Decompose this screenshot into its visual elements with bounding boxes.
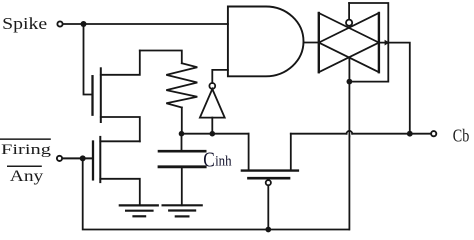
node inverter junction	[210, 131, 216, 137]
wire tgate output	[379, 43, 410, 134]
wire M3 gate to rail	[267, 185, 269, 229]
wire tgate control down to rail	[348, 136, 350, 229]
wire M2 drain stub	[100, 140, 140, 142]
transistor M3 gate bubble	[266, 180, 271, 185]
capacitor Cinh top plate	[159, 150, 205, 153]
node Firing junction	[80, 155, 86, 161]
wire tgate control loop	[349, 3, 388, 82]
node Spike junction	[81, 21, 87, 27]
node Firing terminal	[57, 156, 62, 161]
wire resistor bottom	[181, 108, 183, 134]
tgate TG1 top bubble	[346, 20, 352, 26]
transistor M3 right terminal	[290, 134, 292, 171]
resistor R1 zigzag	[166, 63, 197, 107]
wire AND output	[304, 42, 319, 44]
transistor M2 gate bar	[92, 142, 94, 180]
label Firing overline	[0, 138, 51, 140]
svg-text:Any: Any	[10, 168, 44, 185]
inverter U1 triangle	[200, 89, 225, 118]
wire M2 source stub	[100, 179, 140, 206]
tgate TG1 right base	[378, 13, 380, 72]
tgate TG1 edge E4	[319, 43, 379, 73]
transistor M1 channel bar	[100, 68, 102, 122]
ground G1	[120, 205, 158, 216]
wire cap bottom lead	[181, 168, 183, 206]
wire bus segment A	[182, 133, 249, 135]
node resistor-cap junction	[179, 131, 185, 137]
tgate TG1 edge E1	[319, 13, 379, 43]
wire M1 source stub	[101, 117, 140, 141]
capacitor Cinh bottom plate	[159, 165, 205, 168]
ground G2	[163, 205, 202, 216]
wire bus segment B with hop	[291, 133, 347, 135]
tgate TG1 edge E3	[319, 13, 379, 43]
wire tgate lower control	[348, 57, 350, 131]
node Spike terminal	[57, 21, 62, 26]
node tgate bottom control junction	[347, 79, 353, 85]
svg-text:Cb: Cb	[453, 126, 470, 146]
node Cb terminal	[431, 131, 436, 136]
tgate TG1 edge E2	[319, 43, 379, 73]
transistor M1 gate bar	[91, 76, 93, 115]
inverter U1 bubble	[209, 83, 215, 89]
node tgate loop-output crossing	[385, 40, 390, 46]
transistor M3 gate bar	[249, 177, 290, 180]
wire M1 drain to resistor top	[140, 51, 182, 64]
wire cap top lead	[181, 134, 183, 151]
gate U2 AND body	[228, 7, 304, 77]
label Any overline	[7, 166, 42, 168]
wire Spike input horizontal	[63, 23, 228, 25]
wire inverter input lead	[211, 118, 213, 134]
wire inverter output to AND	[212, 70, 228, 83]
wire Spike to M1 gate	[84, 24, 92, 95]
svg-text:Spike: Spike	[2, 14, 47, 33]
wire Firing terminal to M2 gate	[63, 157, 93, 159]
wire M1 drain stub	[101, 51, 140, 75]
transistor M2 channel bar	[99, 137, 101, 182]
svg-text:Firing: Firing	[1, 142, 52, 158]
node M3 gate rail junction	[265, 227, 271, 233]
svg-text:inh: inh	[215, 154, 232, 170]
transistor M3 channel bar	[242, 169, 298, 171]
tgate TG1 left base	[318, 13, 320, 72]
node tgate output bus junction	[407, 131, 413, 137]
transistor M3 left terminal	[248, 134, 250, 171]
svg-text:C: C	[203, 148, 215, 172]
wire tgate bubble to loop top	[348, 3, 350, 20]
wire Firing down to bottom rail	[83, 158, 349, 229]
